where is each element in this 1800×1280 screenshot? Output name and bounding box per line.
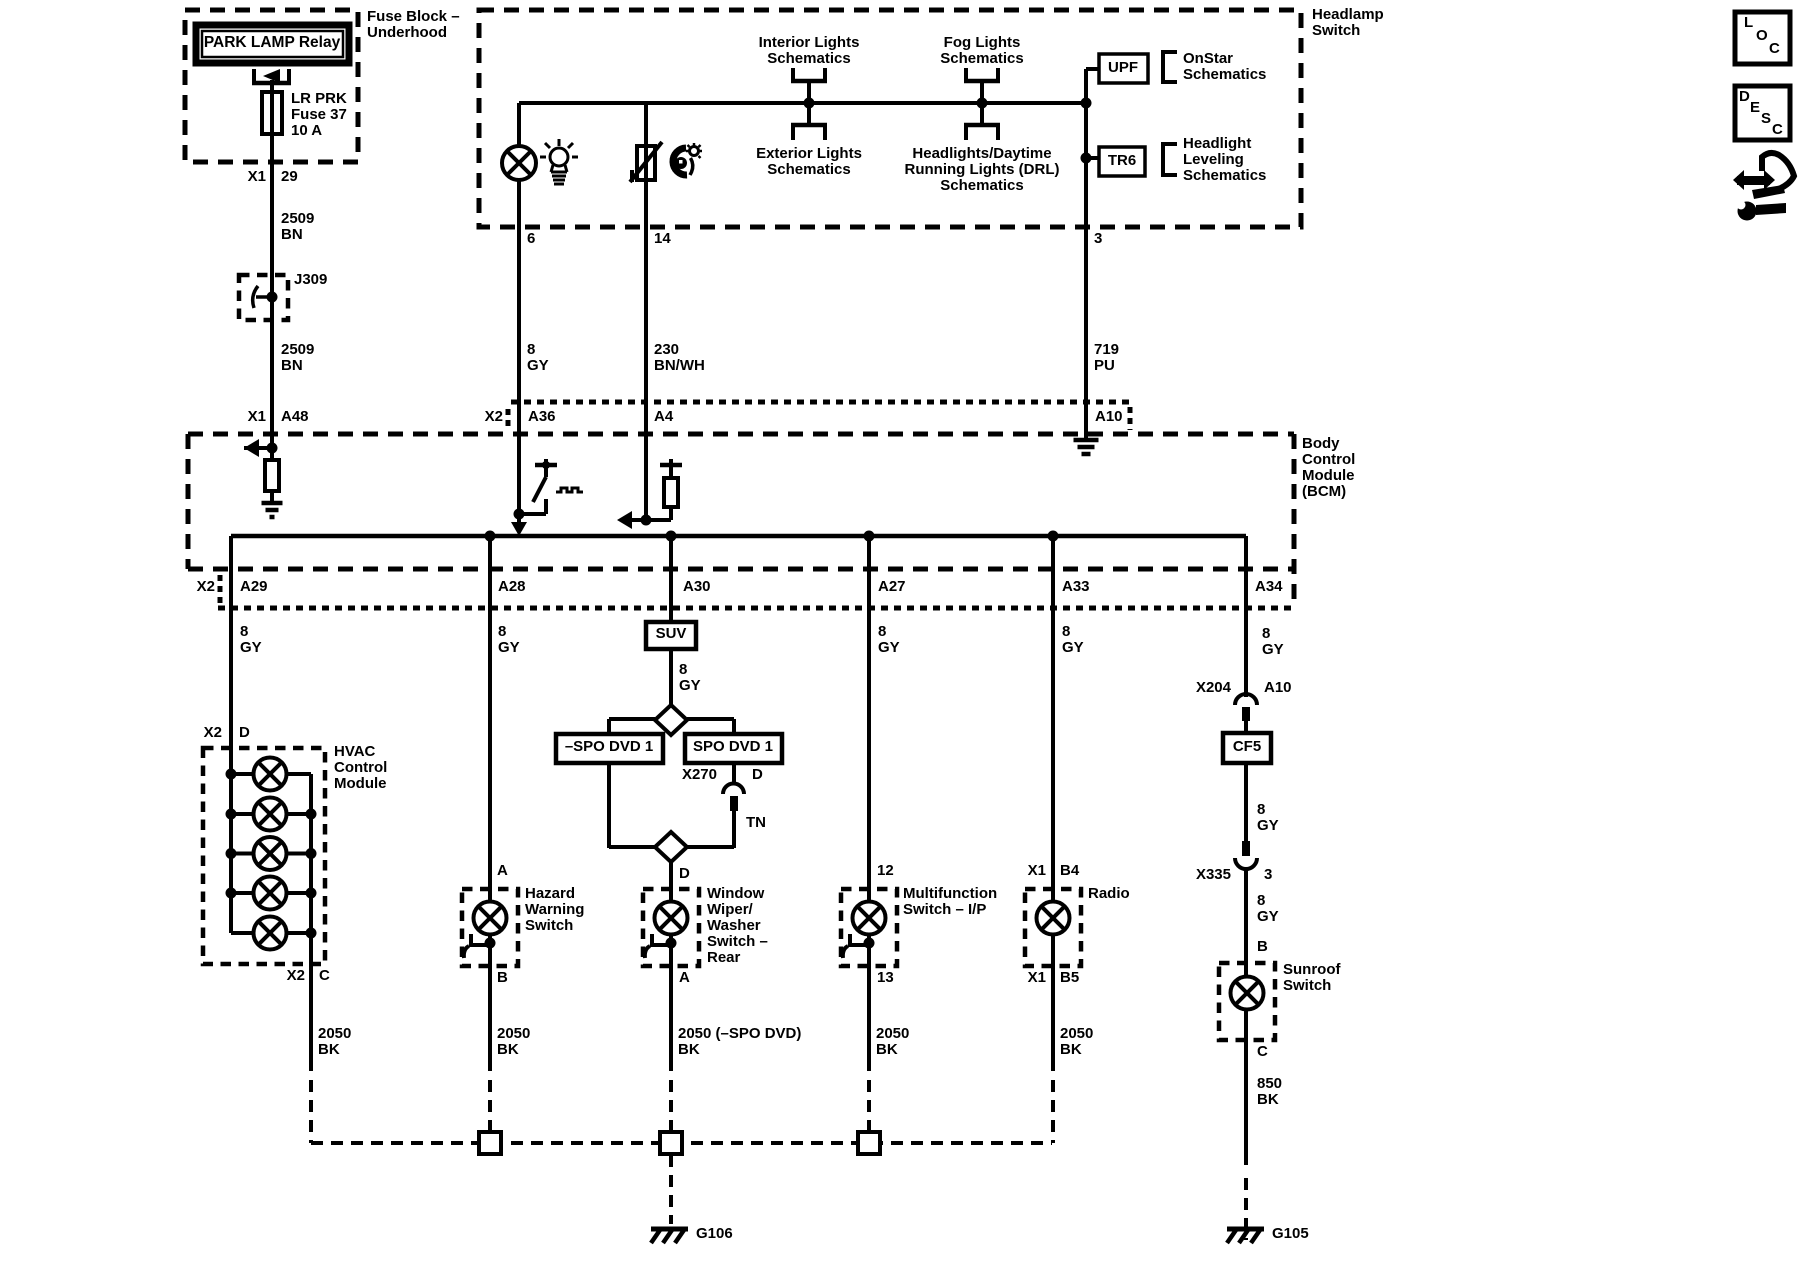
svg-text:Schematics: Schematics	[940, 50, 1023, 67]
svg-text:BN: BN	[281, 226, 303, 243]
svg-text:2050: 2050	[1060, 1025, 1093, 1042]
svg-text:TN: TN	[746, 814, 766, 831]
svg-text:Schematics: Schematics	[1183, 66, 1266, 83]
svg-text:SPO DVD 1: SPO DVD 1	[693, 738, 773, 755]
svg-text:Interior Lights: Interior Lights	[759, 34, 860, 51]
svg-text:2050: 2050	[876, 1025, 909, 1042]
svg-text:X2: X2	[204, 724, 222, 741]
svg-text:8: 8	[1257, 892, 1265, 909]
svg-text:A: A	[679, 969, 690, 986]
svg-text:29: 29	[281, 168, 298, 185]
svg-text:2050 (–SPO DVD): 2050 (–SPO DVD)	[678, 1025, 801, 1042]
svg-text:X1: X1	[1028, 862, 1046, 879]
svg-text:G106: G106	[696, 1225, 733, 1242]
svg-text:GY: GY	[679, 677, 701, 694]
svg-text:GY: GY	[1257, 908, 1279, 925]
svg-text:OnStar: OnStar	[1183, 50, 1233, 67]
svg-text:PU: PU	[1094, 357, 1115, 374]
svg-text:GY: GY	[1257, 817, 1279, 834]
svg-text:D: D	[239, 724, 250, 741]
svg-text:8: 8	[1257, 801, 1265, 818]
svg-text:3: 3	[1094, 230, 1102, 247]
svg-text:Exterior Lights: Exterior Lights	[756, 145, 862, 162]
svg-text:Warning: Warning	[525, 901, 584, 918]
svg-text:(BCM): (BCM)	[1302, 483, 1346, 500]
svg-text:GY: GY	[498, 639, 520, 656]
svg-text:Hazard: Hazard	[525, 885, 575, 902]
svg-text:GY: GY	[1062, 639, 1084, 656]
svg-text:C: C	[1769, 40, 1780, 57]
svg-text:BK: BK	[1060, 1041, 1082, 1058]
svg-text:UPF: UPF	[1108, 59, 1138, 76]
svg-text:8: 8	[498, 623, 506, 640]
svg-text:Schematics: Schematics	[767, 50, 850, 67]
svg-text:A27: A27	[878, 578, 906, 595]
svg-text:E: E	[1750, 99, 1760, 116]
svg-text:PARK LAMP Relay: PARK LAMP Relay	[204, 34, 341, 51]
svg-text:A33: A33	[1062, 578, 1090, 595]
svg-text:BK: BK	[318, 1041, 340, 1058]
svg-text:8: 8	[679, 661, 687, 678]
svg-text:BK: BK	[876, 1041, 898, 1058]
svg-text:6: 6	[527, 230, 535, 247]
svg-text:Switch –: Switch –	[707, 933, 768, 950]
svg-text:CF5: CF5	[1233, 738, 1261, 755]
svg-text:C: C	[319, 967, 330, 984]
svg-text:Switch – I/P: Switch – I/P	[903, 901, 986, 918]
svg-text:2509: 2509	[281, 210, 314, 227]
svg-text:Leveling: Leveling	[1183, 151, 1244, 168]
svg-text:2509: 2509	[281, 341, 314, 358]
svg-text:X1: X1	[1028, 969, 1046, 986]
svg-text:X270: X270	[682, 766, 717, 783]
svg-text:8: 8	[1262, 625, 1270, 642]
svg-text:A29: A29	[240, 578, 268, 595]
svg-text:BK: BK	[678, 1041, 700, 1058]
svg-text:A34: A34	[1255, 578, 1283, 595]
svg-text:TR6: TR6	[1108, 152, 1136, 169]
svg-text:10 A: 10 A	[291, 122, 322, 139]
svg-text:B: B	[1257, 938, 1268, 955]
svg-text:Running Lights (DRL): Running Lights (DRL)	[905, 161, 1060, 178]
svg-text:850: 850	[1257, 1075, 1282, 1092]
svg-text:Underhood: Underhood	[367, 24, 447, 41]
svg-text:Window: Window	[707, 885, 765, 902]
svg-text:D: D	[679, 865, 690, 882]
svg-text:SUV: SUV	[656, 625, 687, 642]
svg-text:C: C	[1257, 1043, 1268, 1060]
svg-text:GY: GY	[240, 639, 262, 656]
svg-text:Schematics: Schematics	[940, 177, 1023, 194]
svg-text:X335: X335	[1196, 866, 1231, 883]
svg-text:8: 8	[878, 623, 886, 640]
svg-text:O: O	[1756, 27, 1768, 44]
svg-text:X2: X2	[485, 408, 503, 425]
svg-text:A10: A10	[1095, 408, 1123, 425]
svg-text:A30: A30	[683, 578, 711, 595]
svg-text:B4: B4	[1060, 862, 1080, 879]
svg-text:Wiper/: Wiper/	[707, 901, 754, 918]
svg-text:B: B	[497, 969, 508, 986]
svg-text:Fuse 37: Fuse 37	[291, 106, 347, 123]
svg-text:X204: X204	[1196, 679, 1232, 696]
svg-text:12: 12	[877, 862, 894, 879]
svg-text:Module: Module	[334, 775, 387, 792]
svg-text:8: 8	[527, 341, 535, 358]
svg-text:Module: Module	[1302, 467, 1355, 484]
svg-text:Body: Body	[1302, 435, 1340, 452]
svg-text:Schematics: Schematics	[1183, 167, 1266, 184]
svg-text:Headlamp: Headlamp	[1312, 6, 1384, 23]
svg-text:Schematics: Schematics	[767, 161, 850, 178]
svg-text:J309: J309	[294, 271, 327, 288]
svg-text:Control: Control	[1302, 451, 1355, 468]
svg-text:HVAC: HVAC	[334, 743, 376, 760]
svg-text:D: D	[752, 766, 763, 783]
svg-text:X2: X2	[197, 578, 215, 595]
svg-text:Switch: Switch	[1312, 22, 1360, 39]
svg-text:Headlights/Daytime: Headlights/Daytime	[912, 145, 1051, 162]
svg-text:GY: GY	[1262, 641, 1284, 658]
svg-text:A10: A10	[1264, 679, 1292, 696]
svg-text:Switch: Switch	[1283, 977, 1331, 994]
svg-text:–SPO DVD 1: –SPO DVD 1	[565, 738, 653, 755]
svg-text:C: C	[1772, 121, 1783, 138]
svg-text:BN/WH: BN/WH	[654, 357, 705, 374]
svg-text:Multifunction: Multifunction	[903, 885, 997, 902]
svg-text:Control: Control	[334, 759, 387, 776]
svg-text:X2: X2	[287, 967, 305, 984]
svg-text:GY: GY	[878, 639, 900, 656]
svg-text:Switch: Switch	[525, 917, 573, 934]
svg-text:Rear: Rear	[707, 949, 741, 966]
svg-text:GY: GY	[527, 357, 549, 374]
svg-text:A48: A48	[281, 408, 309, 425]
svg-text:BK: BK	[1257, 1091, 1279, 1108]
svg-text:G105: G105	[1272, 1225, 1309, 1242]
svg-text:Washer: Washer	[707, 917, 761, 934]
svg-text:A28: A28	[498, 578, 526, 595]
svg-text:Fuse Block –: Fuse Block –	[367, 8, 460, 25]
svg-text:8: 8	[1062, 623, 1070, 640]
svg-text:A36: A36	[528, 408, 556, 425]
svg-text:BN: BN	[281, 357, 303, 374]
svg-text:A: A	[497, 862, 508, 879]
svg-text:2050: 2050	[318, 1025, 351, 1042]
svg-text:S: S	[1761, 110, 1771, 127]
svg-text:X1: X1	[248, 168, 266, 185]
svg-text:Fog Lights: Fog Lights	[944, 34, 1021, 51]
svg-text:A4: A4	[654, 408, 674, 425]
svg-text:Radio: Radio	[1088, 885, 1130, 902]
svg-text:230: 230	[654, 341, 679, 358]
svg-text:3: 3	[1264, 866, 1272, 883]
svg-text:13: 13	[877, 969, 894, 986]
svg-text:X1: X1	[248, 408, 266, 425]
svg-text:Sunroof: Sunroof	[1283, 961, 1341, 978]
svg-text:8: 8	[240, 623, 248, 640]
svg-text:BK: BK	[497, 1041, 519, 1058]
svg-text:719: 719	[1094, 341, 1119, 358]
svg-text:2050: 2050	[497, 1025, 530, 1042]
svg-text:Headlight: Headlight	[1183, 135, 1251, 152]
svg-text:14: 14	[654, 230, 671, 247]
svg-text:LR PRK: LR PRK	[291, 90, 347, 107]
svg-text:L: L	[1744, 14, 1753, 31]
svg-text:B5: B5	[1060, 969, 1079, 986]
svg-text:D: D	[1739, 88, 1750, 105]
